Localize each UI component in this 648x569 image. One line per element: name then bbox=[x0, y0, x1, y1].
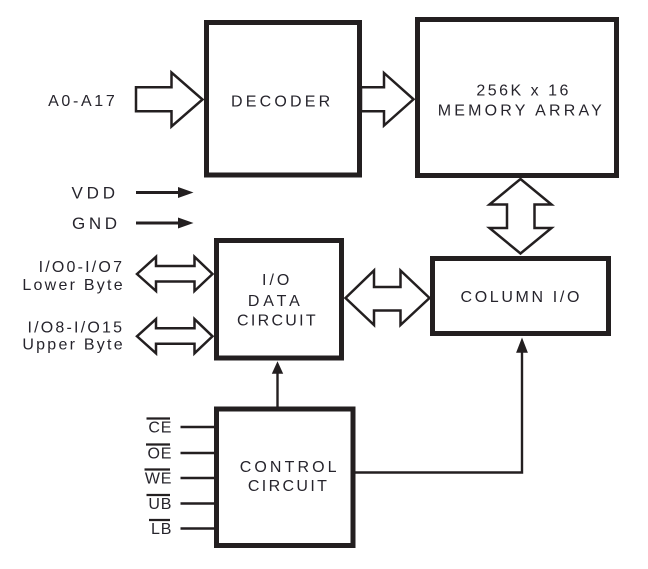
wire hollow arrow DECODER to MEMORY ARRAY bbox=[361, 73, 414, 126]
block COLUMN I/O bbox=[433, 259, 609, 334]
svg-text:CE: CE bbox=[148, 420, 172, 437]
block CONTROL CIRCUIT bbox=[217, 409, 354, 546]
svg-text:WE: WE bbox=[145, 471, 172, 488]
wire CONTROL CIRCUIT to COLUMN I/O with arrow bbox=[356, 338, 528, 473]
svg-text:MEMORY ARRAY: MEMORY ARRAY bbox=[438, 103, 605, 120]
wire arrow CONTROL CIRCUIT to I/O DATA CIRCUIT bbox=[272, 361, 283, 407]
wire hollow double arrow lower byte to I/O DATA CIRCUIT bbox=[137, 257, 213, 291]
node WE label (active low) bbox=[145, 470, 173, 488]
svg-text:GND: GND bbox=[72, 214, 121, 233]
wire address-bus hollow arrow A0-A17 to DECODER bbox=[136, 73, 203, 127]
svg-text:DECODER: DECODER bbox=[231, 94, 333, 111]
wire VDD arrow bbox=[136, 187, 194, 198]
wire OE lead bbox=[181, 452, 215, 454]
svg-text:I/O0-I/O7: I/O0-I/O7 bbox=[39, 259, 125, 276]
wire GND arrow bbox=[136, 218, 194, 229]
node LB label (active low) bbox=[149, 520, 172, 538]
svg-text:A0-A17: A0-A17 bbox=[48, 93, 117, 110]
wire hollow double arrow I/O DATA CIRCUIT to COLUMN I/O bbox=[346, 271, 430, 326]
wire CE lead bbox=[181, 426, 215, 428]
svg-text:VDD: VDD bbox=[72, 184, 119, 203]
node UB label (active low) bbox=[147, 495, 173, 513]
svg-text:Lower Byte: Lower Byte bbox=[22, 277, 125, 294]
svg-text:I/O: I/O bbox=[262, 272, 292, 289]
svg-text:CIRCUIT: CIRCUIT bbox=[237, 313, 318, 330]
svg-text:I/O8-I/O15: I/O8-I/O15 bbox=[27, 320, 124, 337]
block 256K x 16 MEMORY ARRAY bbox=[418, 20, 617, 176]
wire UB lead bbox=[181, 502, 215, 504]
node I/O0-I/O7 Lower Byte label bbox=[22, 259, 125, 294]
svg-text:COLUMN I/O: COLUMN I/O bbox=[461, 289, 583, 306]
block I/O DATA CIRCUIT bbox=[217, 241, 342, 359]
node OE label (active low) bbox=[146, 445, 172, 463]
svg-text:OE: OE bbox=[147, 446, 172, 463]
wire vertical hollow double arrow MEMORY ARRAY to COLUMN I/O bbox=[490, 179, 552, 254]
wire hollow double arrow upper byte to I/O DATA CIRCUIT bbox=[137, 319, 213, 353]
block DECODER bbox=[207, 23, 360, 176]
svg-text:CIRCUIT: CIRCUIT bbox=[248, 478, 329, 495]
svg-text:DATA: DATA bbox=[248, 293, 304, 310]
wire WE lead bbox=[181, 477, 215, 479]
svg-text:UB: UB bbox=[148, 496, 172, 513]
svg-text:CONTROL: CONTROL bbox=[240, 459, 340, 476]
svg-text:Upper Byte: Upper Byte bbox=[22, 337, 125, 354]
node CE label (active low) bbox=[147, 419, 173, 437]
svg-text:256K x 16: 256K x 16 bbox=[476, 83, 571, 100]
node I/O8-I/O15 Upper Byte label bbox=[22, 320, 125, 354]
svg-text:LB: LB bbox=[151, 521, 172, 538]
wire LB lead bbox=[181, 527, 215, 529]
